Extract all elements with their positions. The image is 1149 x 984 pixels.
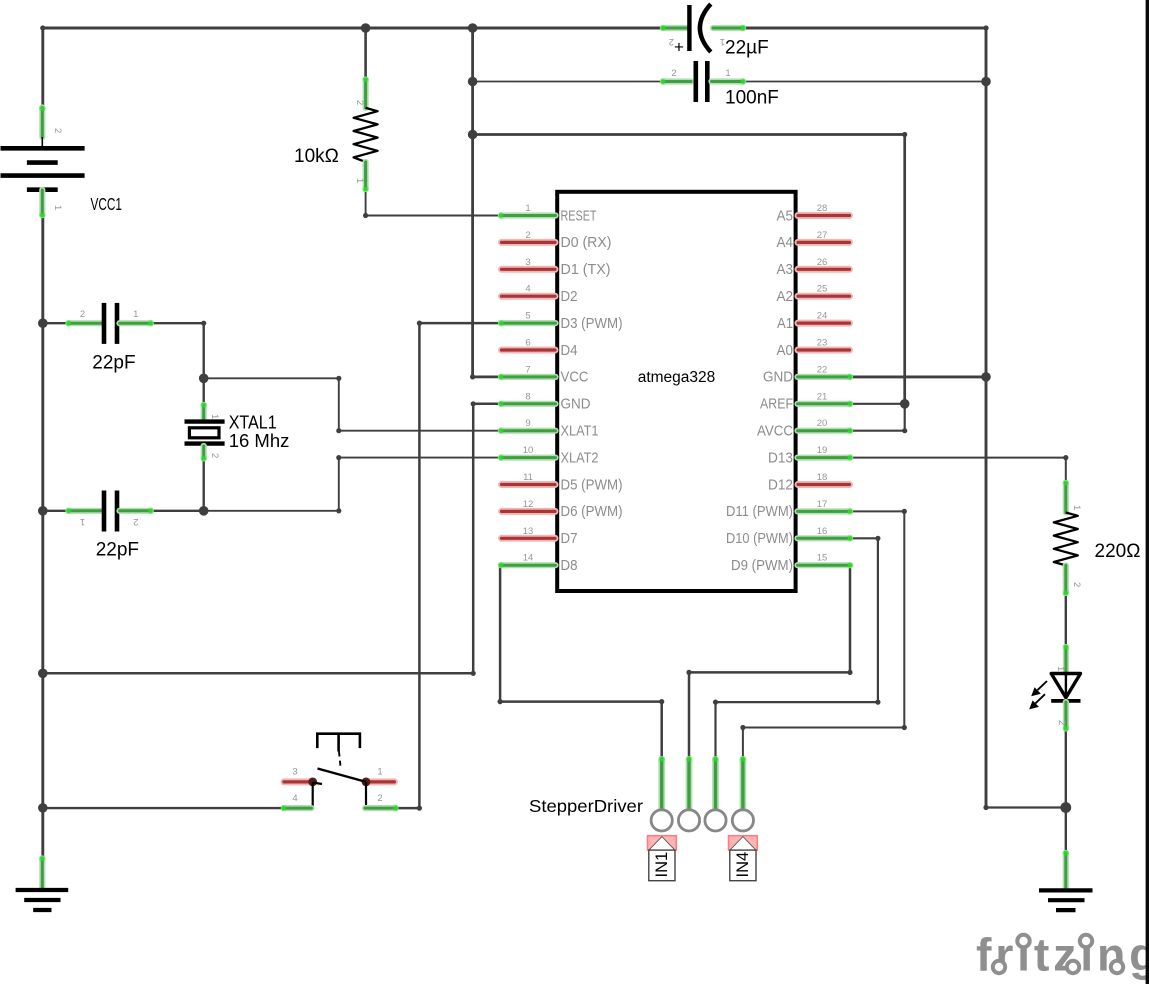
wire bendpoint AREF line top corner bbox=[902, 132, 907, 137]
wire bendpoint XLAT1 wire corner A bbox=[336, 376, 341, 381]
op-amp/IC U1 atmega328 box bbox=[557, 192, 795, 591]
pin 14 D8 bbox=[498, 553, 578, 574]
wire D9 pin15 to stepper IN2 bbox=[689, 565, 850, 758]
svg-text:A4: A4 bbox=[777, 235, 794, 251]
svg-text:D5 (PWM): D5 (PWM) bbox=[561, 477, 623, 493]
wire D10 pin16 to stepper IN3 bbox=[716, 538, 878, 758]
svg-text:10kΩ: 10kΩ bbox=[294, 146, 339, 167]
svg-text:1: 1 bbox=[52, 205, 63, 210]
wire 10k top bbox=[364, 28, 367, 79]
wire 22pF bottom left bbox=[43, 510, 68, 512]
capacitor 22uF bbox=[663, 25, 687, 31]
pin 24 A1 bbox=[777, 311, 850, 332]
svg-text:IN1: IN1 bbox=[653, 852, 671, 878]
pin 18 D12 bbox=[768, 472, 850, 493]
svg-text:GND: GND bbox=[561, 397, 591, 413]
capacitor 22pF top bbox=[69, 320, 102, 326]
wire bendpoint D8 wire corner A bbox=[498, 699, 503, 704]
node crystal bottom junction bbox=[199, 506, 209, 516]
node GND pin22 junction bbox=[981, 372, 991, 382]
svg-text:atmega328: atmega328 bbox=[638, 369, 716, 386]
svg-text:A2: A2 bbox=[777, 289, 794, 305]
pin 7 VCC bbox=[498, 364, 589, 385]
wire bendpoint D13 wire corner bbox=[1063, 455, 1068, 460]
svg-text:GND: GND bbox=[763, 370, 793, 386]
capacitor 22pF bottom bbox=[69, 508, 102, 514]
node bus / button junction bbox=[38, 803, 48, 813]
capacitor 100nF bbox=[663, 78, 691, 84]
svg-text:11: 11 bbox=[523, 472, 533, 483]
node bus / GND8 junction bbox=[38, 669, 48, 679]
wire crystal top lead bbox=[202, 378, 204, 404]
wire bendpoint GND8 wire corner bbox=[471, 401, 476, 406]
svg-text:16 Mhz: 16 Mhz bbox=[229, 430, 290, 451]
svg-text:23: 23 bbox=[817, 338, 828, 349]
pin 3 D1 (TX) bbox=[502, 257, 611, 278]
svg-text:A1: A1 bbox=[777, 316, 793, 332]
wire D13 pin19 to 220R bbox=[850, 458, 1066, 483]
svg-text:2: 2 bbox=[1056, 720, 1067, 725]
node 100nF left junction bbox=[468, 77, 478, 87]
node LED / GND rail junction bbox=[1060, 802, 1071, 813]
svg-text:A0: A0 bbox=[777, 343, 794, 359]
wire button pin2 to D3 pin5 bbox=[396, 323, 501, 808]
svg-text:2: 2 bbox=[133, 516, 138, 527]
pin 12 D6 (PWM) bbox=[502, 499, 623, 520]
wire bendpoint top rail left end bbox=[40, 25, 45, 30]
wire D11 pin17 to stepper IN4 bbox=[743, 511, 904, 758]
wire bendpoint GND8 wire end bbox=[471, 671, 476, 676]
wire LED junction to right ground bbox=[1065, 808, 1067, 853]
wire 22pF bottom right bbox=[151, 510, 203, 512]
svg-text:22: 22 bbox=[817, 364, 828, 375]
svg-text:D1 (TX): D1 (TX) bbox=[561, 262, 611, 278]
svg-text:D12: D12 bbox=[768, 477, 793, 493]
pin 26 A3 bbox=[777, 257, 850, 278]
wire bendpoint 22pF top wire corner bbox=[201, 321, 206, 326]
pin 20 AVCC bbox=[757, 418, 853, 439]
node 100nF right junction bbox=[981, 77, 991, 87]
stepper pin lead x=715.5 bbox=[712, 760, 719, 809]
wire bendpoint XLAT2 wire corner A bbox=[336, 455, 341, 460]
wire left bus top to battery bbox=[41, 28, 44, 106]
svg-text:7: 7 bbox=[525, 364, 530, 375]
wire D8 pin14 to stepper IN1 bbox=[500, 565, 662, 758]
wire bendpoint XLAT1 wire corner B bbox=[336, 428, 341, 433]
svg-text:D0 (RX): D0 (RX) bbox=[561, 235, 612, 251]
stepper pin circle x=715.5 bbox=[705, 810, 726, 831]
svg-text:2: 2 bbox=[671, 68, 676, 79]
pin 22 GND bbox=[763, 364, 853, 385]
svg-text:15: 15 bbox=[817, 553, 828, 564]
wire VCC vertical to pin7 bbox=[473, 28, 501, 377]
pin 19 D13 bbox=[768, 445, 853, 466]
wire bendpoint button wire corner bbox=[417, 806, 422, 811]
svg-text:1: 1 bbox=[1071, 505, 1082, 510]
flag IN4 bbox=[729, 836, 758, 881]
svg-text:28: 28 bbox=[817, 203, 828, 214]
svg-text:2: 2 bbox=[80, 309, 85, 320]
wire bendpoint D8 wire corner B bbox=[659, 699, 664, 704]
node crystal top junction bbox=[199, 374, 209, 384]
svg-text:13: 13 bbox=[523, 526, 534, 537]
svg-text:D9 (PWM): D9 (PWM) bbox=[731, 558, 793, 574]
pin 11 D5 (PWM) bbox=[502, 472, 623, 493]
svg-text:27: 27 bbox=[817, 230, 828, 241]
right edge border line bbox=[1146, 0, 1149, 984]
stepper pin circle x=742.9 bbox=[732, 810, 753, 831]
wire GND rail to LED junction bbox=[986, 806, 1066, 808]
svg-text:2: 2 bbox=[209, 453, 220, 458]
svg-text:16: 16 bbox=[817, 526, 828, 537]
svg-text:D7: D7 bbox=[561, 531, 578, 547]
wire bendpoint D10 wire corner C bbox=[713, 700, 718, 705]
pin 5 D3 (PWM) bbox=[498, 311, 623, 332]
wire left bus battery to ground bbox=[41, 216, 44, 857]
svg-text:1: 1 bbox=[725, 68, 730, 79]
battery VCC1 bbox=[39, 108, 45, 138]
svg-text:2: 2 bbox=[1071, 582, 1082, 587]
svg-text:D6 (PWM): D6 (PWM) bbox=[561, 504, 623, 520]
svg-text:21: 21 bbox=[817, 391, 828, 402]
wire GND pin22 bbox=[850, 375, 986, 378]
wire bendpoint D9 wire corner B bbox=[686, 670, 691, 675]
svg-text:D2: D2 bbox=[561, 289, 578, 305]
svg-text:D11 (PWM): D11 (PWM) bbox=[726, 504, 793, 520]
svg-text:1: 1 bbox=[80, 516, 85, 527]
wire 220R to LED bbox=[1065, 594, 1067, 647]
svg-text:5: 5 bbox=[525, 311, 530, 322]
wire bendpoint D11 wire corner C bbox=[740, 725, 745, 730]
wire LED to GND junction bbox=[1065, 729, 1067, 808]
ground left bbox=[39, 859, 45, 889]
pin 15 D9 (PWM) bbox=[731, 553, 853, 574]
pin 17 D11 (PWM) bbox=[726, 499, 853, 520]
wire top VCC rail bbox=[43, 27, 662, 30]
svg-text:20: 20 bbox=[817, 418, 828, 429]
svg-text:D13: D13 bbox=[768, 450, 793, 466]
wire bendpoint D9 wire corner A bbox=[847, 670, 852, 675]
wire 10k bottom to RESET pin1 bbox=[366, 190, 501, 216]
stepper pin lead x=661.7 bbox=[658, 760, 665, 809]
wire bendpoint AVCC wire corner bbox=[902, 428, 907, 433]
svg-text:XLAT1: XLAT1 bbox=[561, 424, 599, 440]
svg-text:XLAT2: XLAT2 bbox=[561, 450, 599, 466]
node bus / 22pF bottom junction bbox=[38, 506, 48, 516]
wire AREF line top bbox=[473, 135, 905, 404]
svg-text:22pF: 22pF bbox=[96, 540, 139, 561]
svg-text:4: 4 bbox=[292, 793, 297, 804]
pushbutton bbox=[280, 734, 399, 812]
svg-text:AREF: AREF bbox=[760, 397, 793, 413]
pin 8 GND bbox=[498, 391, 591, 412]
stepper pin circle x=689 bbox=[678, 810, 699, 831]
svg-text:3: 3 bbox=[525, 257, 530, 268]
svg-text:1: 1 bbox=[1055, 666, 1066, 671]
wire bendpoint D10 wire corner B bbox=[875, 700, 880, 705]
svg-text:D10 (PWM): D10 (PWM) bbox=[726, 531, 793, 547]
node AREF line junction bbox=[468, 130, 478, 140]
svg-text:26: 26 bbox=[817, 257, 828, 268]
pin 16 D10 (PWM) bbox=[726, 526, 853, 547]
svg-text:VCC1: VCC1 bbox=[91, 194, 123, 214]
wire bendpoint VCC wire corner bbox=[470, 374, 475, 379]
svg-text:24: 24 bbox=[817, 311, 828, 322]
wire XLAT2 pin10 bbox=[204, 458, 501, 511]
ground right bbox=[1063, 853, 1069, 888]
svg-text:25: 25 bbox=[817, 284, 828, 295]
svg-text:18: 18 bbox=[817, 472, 828, 483]
wire bendpoint D3 wire corner bbox=[417, 321, 422, 326]
svg-text:2: 2 bbox=[52, 128, 63, 133]
wire 100nF left bbox=[473, 81, 663, 83]
svg-text:A3: A3 bbox=[777, 262, 794, 278]
svg-text:2: 2 bbox=[377, 793, 382, 804]
pin 25 A2 bbox=[777, 284, 850, 305]
wire GND pin8 bbox=[43, 404, 501, 674]
svg-text:3: 3 bbox=[292, 767, 297, 778]
pin 4 D2 bbox=[502, 284, 578, 305]
svg-text:9: 9 bbox=[525, 418, 530, 429]
svg-text:2: 2 bbox=[669, 36, 674, 47]
wire crystal bottom lead bbox=[202, 459, 204, 511]
svg-text:D8: D8 bbox=[561, 558, 578, 574]
svg-text:1: 1 bbox=[377, 767, 382, 778]
node bus / 22pF top junction bbox=[38, 318, 48, 328]
node AREF/AVCC junction bbox=[900, 399, 910, 409]
svg-text:A5: A5 bbox=[777, 208, 794, 224]
svg-text:14: 14 bbox=[523, 553, 534, 564]
wire AREF pin21 bbox=[850, 403, 905, 405]
wire 100nF right bbox=[744, 81, 986, 83]
pin 21 AREF bbox=[760, 391, 853, 412]
svg-text:19: 19 bbox=[817, 445, 828, 456]
wire bendpoint top rail right corner bbox=[983, 25, 988, 30]
node top rail / 10k junction bbox=[361, 23, 371, 33]
wire bendpoint XLAT2 wire corner B bbox=[336, 508, 341, 513]
wire 22pF top left bbox=[43, 322, 68, 324]
stepper pin circle x=661.7 bbox=[651, 810, 672, 831]
wire bendpoint D11 wire corner A bbox=[902, 509, 907, 514]
svg-text:22pF: 22pF bbox=[92, 353, 135, 374]
svg-text:100nF: 100nF bbox=[725, 88, 779, 109]
svg-text:220Ω: 220Ω bbox=[1095, 541, 1141, 562]
svg-text:2: 2 bbox=[525, 230, 530, 241]
svg-text:IN4: IN4 bbox=[734, 852, 752, 878]
pin 10 XLAT2 bbox=[498, 445, 599, 466]
pin 23 A0 bbox=[777, 338, 850, 359]
crystal XTAL1 bbox=[201, 405, 207, 419]
pin 13 D7 bbox=[502, 526, 578, 547]
svg-text:12: 12 bbox=[523, 499, 534, 510]
wire top rail right of 22uF bbox=[744, 28, 986, 808]
wire bendpoint RESET wire corner bbox=[363, 213, 368, 218]
svg-text:AVCC: AVCC bbox=[757, 424, 793, 440]
svg-text:StepperDriver: StepperDriver bbox=[529, 796, 643, 816]
svg-text:1: 1 bbox=[133, 309, 138, 320]
pin 6 D4 bbox=[502, 338, 578, 359]
stepper pin lead x=742.9 bbox=[740, 760, 747, 809]
flag IN1 bbox=[648, 836, 677, 881]
svg-text:1: 1 bbox=[354, 178, 365, 183]
svg-text:D4: D4 bbox=[561, 343, 578, 359]
svg-text:2: 2 bbox=[354, 100, 365, 105]
svg-text:1: 1 bbox=[209, 414, 220, 419]
svg-text:1: 1 bbox=[525, 203, 530, 214]
resistor 10k bbox=[363, 80, 369, 108]
pin 1 RESET bbox=[498, 203, 597, 224]
LED bbox=[1063, 647, 1069, 673]
wire bendpoint D10 wire corner A bbox=[875, 536, 880, 541]
stepper pin lead x=689 bbox=[686, 760, 693, 809]
pin 2 D0 (RX) bbox=[502, 230, 612, 251]
svg-text:8: 8 bbox=[525, 391, 530, 402]
pin 9 XLAT1 bbox=[498, 418, 599, 439]
wire 22pF top right to crystal junction bbox=[151, 323, 203, 378]
svg-text:10: 10 bbox=[523, 445, 534, 456]
svg-text:VCC: VCC bbox=[561, 370, 589, 386]
svg-text:6: 6 bbox=[525, 338, 530, 349]
svg-text:22µF: 22µF bbox=[725, 38, 769, 59]
svg-text:D3 (PWM): D3 (PWM) bbox=[561, 316, 623, 332]
resistor 220 bbox=[1063, 483, 1069, 513]
svg-text:17: 17 bbox=[817, 499, 828, 510]
wire bendpoint GND rail bottom corner bbox=[983, 805, 988, 810]
wire bendpoint D11 wire corner B bbox=[902, 725, 907, 730]
svg-text:RESET: RESET bbox=[561, 208, 597, 224]
svg-text:+: + bbox=[674, 38, 684, 57]
wire AVCC pin20 bbox=[850, 404, 905, 431]
pin 28 A5 bbox=[777, 203, 850, 224]
wire button bottom to bus bbox=[43, 807, 282, 809]
pin 27 A4 bbox=[777, 230, 850, 251]
node top rail / VCC vertical junction bbox=[468, 23, 478, 33]
svg-text:4: 4 bbox=[525, 284, 530, 295]
wire XLAT1 pin9 bbox=[204, 378, 501, 430]
